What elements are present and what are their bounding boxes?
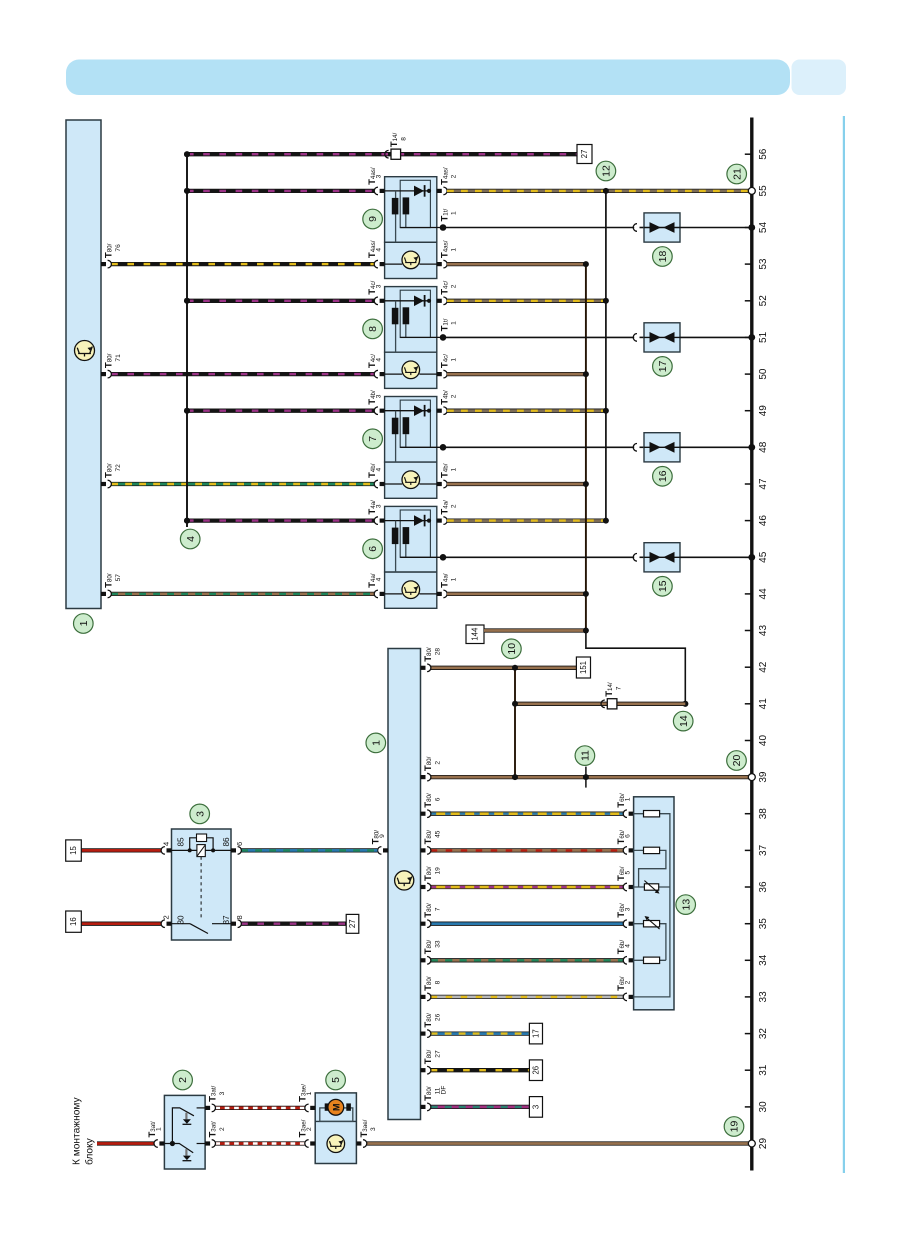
track tick 51 <box>745 336 752 338</box>
svg-text:54: 54 <box>758 222 769 234</box>
svg-text:12: 12 <box>601 165 613 177</box>
svg-text:4: 4 <box>162 842 171 846</box>
svg-text:51: 51 <box>758 331 769 343</box>
svg-text:7: 7 <box>615 686 622 690</box>
track tick 43 <box>745 630 752 632</box>
svg-text:1: 1 <box>451 577 458 581</box>
track tick 52 <box>745 300 752 302</box>
track tick 48 <box>745 446 752 448</box>
unit label circle 3 <box>190 804 210 824</box>
track tick 40 <box>745 740 752 742</box>
svg-text:15: 15 <box>69 846 78 855</box>
main bus bar (current track 30a) <box>750 118 753 1171</box>
wire T80/27 to point 26 <box>431 1068 530 1072</box>
wire brown/yellow track 49 <box>447 409 606 413</box>
onboard supply control unit 1 (bottom) <box>388 649 421 1120</box>
svg-text:151: 151 <box>579 661 588 674</box>
joint circle 20 <box>748 774 755 781</box>
svg-text:4: 4 <box>185 536 197 542</box>
terminal box 26 <box>529 1060 542 1081</box>
wire T80/19 to T6b/5 <box>431 885 624 889</box>
wire blue/green T80/9 <box>241 848 377 852</box>
svg-text:2: 2 <box>306 1127 313 1131</box>
svg-text:1: 1 <box>306 1091 313 1095</box>
svg-text:5: 5 <box>625 871 632 875</box>
wire red to point 16 <box>81 922 161 926</box>
wire brown track 43 <box>484 628 586 632</box>
svg-text:15: 15 <box>657 580 669 592</box>
terminal box 151 <box>576 657 590 678</box>
svg-text:2: 2 <box>451 284 458 288</box>
svg-text:45: 45 <box>758 551 769 563</box>
svg-text:44: 44 <box>758 588 769 600</box>
track tick 29 <box>745 1143 752 1145</box>
svg-text:2: 2 <box>162 915 171 919</box>
header small tab <box>792 60 847 96</box>
svg-text:4: 4 <box>376 577 383 581</box>
wire T80/33 to T6b/4 <box>431 958 624 962</box>
terminal box 17 <box>529 1023 542 1044</box>
svg-text:4: 4 <box>376 358 383 362</box>
unit label circle 1 <box>74 614 94 634</box>
svg-text:17: 17 <box>532 1029 541 1038</box>
wire brown track 41 <box>515 702 685 706</box>
svg-text:30: 30 <box>177 915 186 925</box>
track tick 36 <box>745 886 752 888</box>
svg-text:38: 38 <box>758 808 769 820</box>
track tick 45 <box>745 556 752 558</box>
svg-text:56: 56 <box>758 148 769 160</box>
svg-text:DF: DF <box>441 1086 448 1095</box>
wire brown track 47 <box>447 482 586 486</box>
node line 4 overdraw <box>186 154 188 527</box>
svg-text:41: 41 <box>758 698 769 710</box>
wire brown T80/28 to box 151 <box>431 666 577 670</box>
svg-text:3: 3 <box>219 1091 226 1095</box>
svg-text:57: 57 <box>115 574 122 582</box>
svg-text:10: 10 <box>506 643 518 655</box>
svg-text:4: 4 <box>376 468 383 472</box>
wire red to point 15 <box>81 848 161 852</box>
diode box 15 <box>443 543 755 572</box>
svg-text:1: 1 <box>451 358 458 362</box>
wire black/purple to relay pin 3 (track 49) <box>187 409 374 413</box>
relay 3 (washer relay) <box>172 829 232 940</box>
svg-text:31: 31 <box>758 1064 769 1076</box>
joint circle 12 <box>596 161 616 181</box>
svg-text:8: 8 <box>367 326 379 332</box>
track tick 32 <box>745 1033 752 1035</box>
diode box 16 <box>443 433 755 462</box>
svg-text:2: 2 <box>625 980 632 984</box>
svg-text:3: 3 <box>376 284 383 288</box>
joint circle 16 <box>653 467 673 487</box>
unit label circle 13 <box>676 895 696 915</box>
wire black/purple track 56 <box>187 152 577 156</box>
svg-text:2: 2 <box>434 761 441 765</box>
wire T80/26 to point 17 <box>431 1031 530 1035</box>
wire black/purple to relay pin 3 (track 55) <box>187 189 374 193</box>
svg-text:К монтажному: К монтажному <box>72 1096 83 1165</box>
svg-text:26: 26 <box>532 1066 541 1075</box>
wire T80/6 to T6b/1 <box>431 812 624 816</box>
svg-text:48: 48 <box>758 441 769 453</box>
joint circle 19 <box>748 1140 755 1147</box>
right page rule (blue) <box>843 116 845 1173</box>
svg-text:1: 1 <box>451 211 458 215</box>
svg-text:49: 49 <box>758 405 769 417</box>
wire brown/yellow track 46 <box>447 518 606 522</box>
svg-text:71: 71 <box>115 354 122 362</box>
connector T14/7 <box>601 700 605 708</box>
svg-text:2: 2 <box>451 504 458 508</box>
svg-text:1: 1 <box>370 740 382 746</box>
svg-text:20: 20 <box>731 755 743 767</box>
wire brown track 53 <box>447 262 586 266</box>
wire T80/76 to relay lamp <box>111 262 374 266</box>
wire brown/yellow track 52 <box>447 299 606 303</box>
svg-text:7: 7 <box>367 436 379 442</box>
svg-text:4: 4 <box>625 944 632 948</box>
svg-text:7: 7 <box>434 907 441 911</box>
joint circle 11 <box>585 767 587 788</box>
svg-text:2: 2 <box>219 1127 226 1131</box>
track tick 42 <box>745 666 752 668</box>
svg-text:8: 8 <box>434 980 441 984</box>
pump icon <box>327 1135 345 1153</box>
vertical brown joint line <box>585 264 587 630</box>
pin T80/9 (left) <box>383 848 388 852</box>
unit label circle 1 <box>366 733 386 753</box>
svg-text:28: 28 <box>434 648 441 656</box>
svg-text:8: 8 <box>400 137 407 141</box>
joint circle 10 <box>502 639 522 659</box>
svg-text:33: 33 <box>434 940 441 948</box>
wire brown T80/2 track 39 to bus <box>431 775 752 779</box>
svg-text:53: 53 <box>758 258 769 270</box>
svg-text:2: 2 <box>451 174 458 178</box>
terminal box 3 <box>529 1097 542 1118</box>
track tick 34 <box>745 959 752 961</box>
svg-text:35: 35 <box>758 918 769 930</box>
switch icon <box>75 341 95 361</box>
svg-text:1: 1 <box>451 468 458 472</box>
wire black/purple to relay pin 3 (track 46) <box>187 518 374 522</box>
svg-text:18: 18 <box>657 251 669 263</box>
svg-text:M: M <box>331 1104 341 1112</box>
relay unit 8 (turn signal relay 4c) <box>374 287 447 389</box>
joint circle 7 <box>363 429 383 449</box>
wire T80/45 to T6b/6 <box>431 848 624 852</box>
track tick 55 <box>745 190 752 192</box>
svg-text:55: 55 <box>758 185 769 197</box>
svg-text:50: 50 <box>758 368 769 380</box>
svg-text:43: 43 <box>758 625 769 637</box>
track tick 39 <box>745 776 752 778</box>
joint circle 21 <box>748 187 755 194</box>
svg-text:47: 47 <box>758 478 769 490</box>
label pin T80/28 <box>421 666 426 670</box>
vertical joint line C <box>514 668 516 777</box>
svg-text:1: 1 <box>78 620 90 626</box>
svg-text:3: 3 <box>194 811 206 817</box>
wire brown track 44 <box>447 592 586 596</box>
svg-text:14: 14 <box>678 715 690 727</box>
track tick 50 <box>745 373 752 375</box>
svg-text:86: 86 <box>222 837 231 847</box>
svg-text:8: 8 <box>235 915 244 919</box>
svg-text:144: 144 <box>471 627 480 641</box>
terminal box 15 <box>66 840 82 861</box>
svg-text:32: 32 <box>758 1028 769 1040</box>
track tick 53 <box>745 263 752 265</box>
svg-text:1: 1 <box>451 248 458 252</box>
joint circle 18 <box>653 247 673 267</box>
joint circle 9 <box>363 209 383 229</box>
joint circle 4 <box>180 529 200 549</box>
svg-text:3: 3 <box>532 1105 541 1109</box>
terminal box 16 <box>66 911 82 932</box>
track tick 47 <box>745 483 752 485</box>
connector T14/8 <box>385 150 389 158</box>
svg-text:6: 6 <box>625 834 632 838</box>
svg-text:6: 6 <box>367 546 379 552</box>
terminal box 27 (bottom) <box>346 914 359 933</box>
unit icon <box>395 871 414 890</box>
track tick 38 <box>745 813 752 815</box>
svg-text:19: 19 <box>434 867 441 875</box>
diode box 17 <box>443 323 755 352</box>
svg-text:42: 42 <box>758 661 769 673</box>
svg-text:1: 1 <box>625 797 632 801</box>
svg-text:26: 26 <box>434 1013 441 1021</box>
svg-text:3: 3 <box>376 174 383 178</box>
wire T80/11 to point 3 <box>431 1105 530 1109</box>
label pin T80/2 <box>421 775 426 779</box>
svg-text:27: 27 <box>434 1050 441 1058</box>
track tick 37 <box>745 849 752 851</box>
relay unit 6 (turn signal relay 4a) <box>374 506 447 608</box>
svg-text:4: 4 <box>376 248 383 252</box>
svg-text:19: 19 <box>729 1121 741 1133</box>
wire brown/yellow track 55 to bus <box>447 189 752 193</box>
svg-text:3: 3 <box>376 394 383 398</box>
svg-text:30: 30 <box>758 1101 769 1113</box>
svg-text:9: 9 <box>367 216 379 222</box>
svg-text:40: 40 <box>758 735 769 747</box>
svg-text:45: 45 <box>434 830 441 838</box>
relay unit 9 (turn signal relay 4as) <box>374 177 447 279</box>
terminal box 144 <box>466 625 484 644</box>
wire brown track 50 <box>447 372 586 376</box>
svg-text:6: 6 <box>434 797 441 801</box>
svg-text:3: 3 <box>376 504 383 508</box>
wire red/white T3at/3 <box>215 1106 305 1110</box>
track tick 56 <box>745 153 752 155</box>
svg-text:17: 17 <box>657 360 669 372</box>
svg-text:27: 27 <box>348 919 357 928</box>
svg-text:2: 2 <box>177 1077 189 1083</box>
svg-text:37: 37 <box>758 844 769 856</box>
motor M <box>328 1099 344 1115</box>
joint circle 8 <box>363 319 383 339</box>
unit label circle 5 <box>326 1070 346 1090</box>
washer pump 5 <box>315 1093 356 1164</box>
washer switch 2 <box>164 1095 205 1169</box>
svg-text:13: 13 <box>680 899 692 911</box>
svg-text:29: 29 <box>758 1138 769 1150</box>
wire T80/71 to relay lamp <box>111 372 374 376</box>
svg-text:3: 3 <box>370 1127 377 1131</box>
svg-text:11: 11 <box>580 750 592 761</box>
track tick 35 <box>745 923 752 925</box>
wire black/purple to point 27 <box>241 922 346 926</box>
vertical joint line 12 <box>605 191 607 521</box>
unit label circle 2 <box>173 1070 193 1090</box>
relay unit 7 (turn signal relay 4b) <box>374 397 447 499</box>
track tick 54 <box>745 227 752 229</box>
node/junction line (4) purple feed <box>186 154 188 527</box>
svg-text:72: 72 <box>115 464 122 472</box>
joint circle 14 <box>682 701 688 707</box>
wire black/purple to relay pin 3 (track 52) <box>187 299 374 303</box>
svg-text:52: 52 <box>758 295 769 307</box>
wire T80/8 to T6b/2 <box>431 995 624 999</box>
svg-text:76: 76 <box>115 244 122 252</box>
track tick 33 <box>745 996 752 998</box>
joint circle 17 <box>653 357 673 377</box>
diode box 18 <box>443 213 755 242</box>
svg-text:34: 34 <box>758 954 769 966</box>
svg-text:33: 33 <box>758 991 769 1003</box>
svg-text:5: 5 <box>330 1077 342 1083</box>
terminal box 27 (track56) <box>577 145 592 164</box>
svg-text:16: 16 <box>657 470 669 482</box>
svg-text:36: 36 <box>758 881 769 893</box>
wire red/white T3at/2 <box>215 1141 305 1145</box>
joint circle 15 <box>653 577 673 597</box>
svg-text:3: 3 <box>625 907 632 911</box>
track tick 30 <box>745 1106 752 1108</box>
track tick 46 <box>745 520 752 522</box>
svg-text:2: 2 <box>451 394 458 398</box>
svg-text:1: 1 <box>451 321 458 325</box>
svg-text:46: 46 <box>758 515 769 527</box>
svg-text:1: 1 <box>155 1127 162 1131</box>
wire brown track 29 to bus <box>367 1141 752 1145</box>
header bar <box>66 60 790 96</box>
svg-text:27: 27 <box>580 150 589 159</box>
joint circle 6 <box>363 539 383 559</box>
track tick 41 <box>745 703 752 705</box>
svg-text:блоку: блоку <box>84 1137 96 1165</box>
track tick 31 <box>745 1069 752 1071</box>
track tick 49 <box>745 410 752 412</box>
svg-text:6: 6 <box>235 842 244 846</box>
svg-text:39: 39 <box>758 771 769 783</box>
svg-text:85: 85 <box>177 837 186 847</box>
svg-text:21: 21 <box>731 168 743 180</box>
resistor unit 13 <box>634 797 674 1010</box>
wire red from fuse box <box>97 1141 154 1145</box>
steering column switch unit 1 (top) <box>66 120 101 609</box>
svg-text:87: 87 <box>222 915 231 925</box>
link wire to track 41 <box>586 631 685 704</box>
svg-text:16: 16 <box>69 917 78 926</box>
wire T80/72 to relay lamp <box>111 482 374 486</box>
svg-text:9: 9 <box>379 834 386 838</box>
wire T80/57 to relay lamp <box>111 592 374 596</box>
wire T80/7 to T6b/3 <box>431 922 624 926</box>
track tick 44 <box>745 593 752 595</box>
